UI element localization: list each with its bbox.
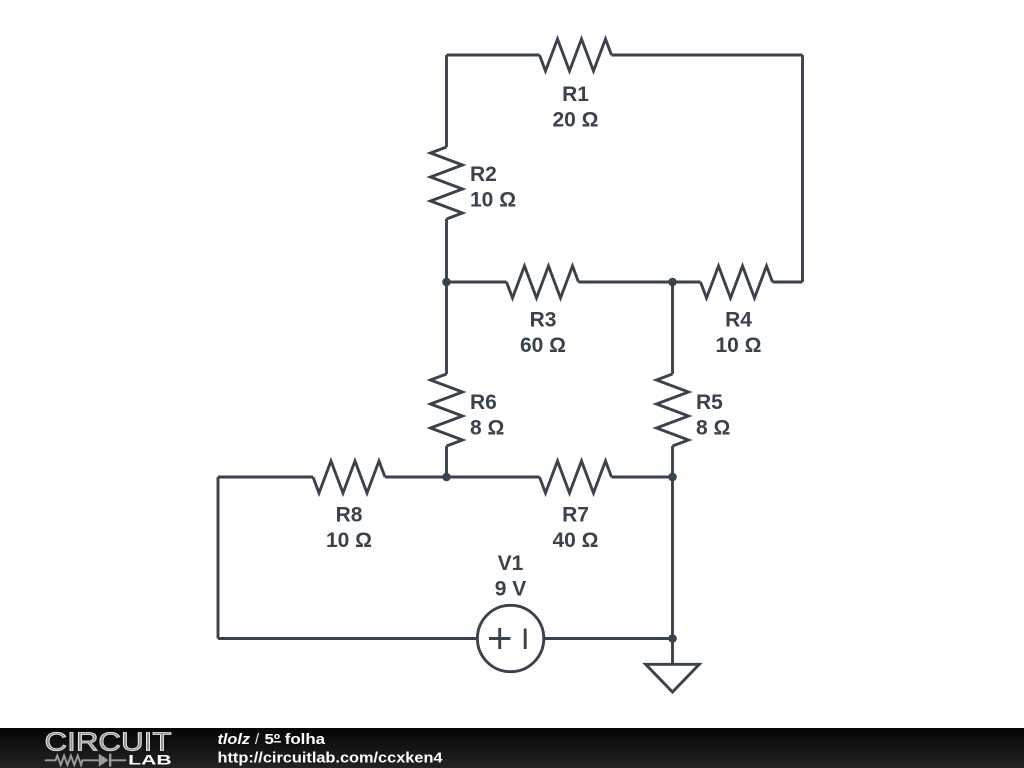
wire R5 to node D xyxy=(671,446,674,477)
svg-text:R3: R3 xyxy=(530,309,557,332)
svg-text:10 Ω: 10 Ω xyxy=(326,529,372,552)
svg-text:tlolz: tlolz xyxy=(218,732,251,748)
wire far-left to R8 xyxy=(218,476,313,479)
wire node C to R7 xyxy=(447,476,540,479)
wire node B down to R5 xyxy=(671,282,674,374)
resistor R8 xyxy=(313,461,385,493)
wire R4 to right vertical xyxy=(773,281,803,284)
wire right vertical xyxy=(801,55,804,282)
resistor R2 xyxy=(431,147,463,219)
svg-text:10 Ω: 10 Ω xyxy=(470,189,516,212)
svg-text:20 Ω: 20 Ω xyxy=(552,109,598,132)
node E junction dot xyxy=(668,634,677,643)
svg-text:8 Ω: 8 Ω xyxy=(470,417,504,440)
wire bottom to V1 xyxy=(218,637,477,640)
svg-text:8 Ω: 8 Ω xyxy=(696,417,730,440)
svg-text:40 Ω: 40 Ω xyxy=(552,529,598,552)
svg-text:LAB: LAB xyxy=(128,751,172,767)
svg-text:R2: R2 xyxy=(470,163,497,186)
wire top-left horizontal xyxy=(447,54,540,57)
wire node A down to R6 xyxy=(445,282,448,374)
wire R6 to node C xyxy=(445,446,448,477)
wire top-right horizontal xyxy=(612,54,803,57)
resistor R7 xyxy=(540,461,612,493)
wire far-left vertical xyxy=(217,477,220,639)
node D junction dot xyxy=(668,473,677,482)
node C junction dot xyxy=(442,473,451,482)
wire node A to R3 xyxy=(447,281,507,284)
resistor R6 xyxy=(431,374,463,446)
wire R8 to node C xyxy=(385,476,447,479)
svg-text:R4: R4 xyxy=(725,309,752,332)
wire R7 to node D xyxy=(612,476,673,479)
svg-text:R7: R7 xyxy=(562,504,589,527)
node B junction dot xyxy=(668,278,677,287)
wire left vertical R2 to node A xyxy=(445,219,448,282)
svg-text:9 V: 9 V xyxy=(495,578,527,601)
svg-text:R6: R6 xyxy=(470,391,497,414)
wire V1 to node E xyxy=(544,637,673,640)
resistor R4 xyxy=(701,266,773,298)
svg-text:5º folha: 5º folha xyxy=(265,732,327,748)
wire node D down to node E xyxy=(671,477,674,639)
wire left vertical upper xyxy=(445,55,448,147)
svg-text:R1: R1 xyxy=(562,83,589,106)
svg-text:10 Ω: 10 Ω xyxy=(715,334,761,357)
svg-text:http://circuitlab.com/ccxken4: http://circuitlab.com/ccxken4 xyxy=(218,750,444,767)
wire R3 to node B xyxy=(579,281,673,284)
svg-text:R5: R5 xyxy=(696,391,723,414)
resistor R3 xyxy=(507,266,579,298)
resistor R1 xyxy=(540,39,612,71)
ground xyxy=(646,639,700,693)
svg-text:60 Ω: 60 Ω xyxy=(520,334,566,357)
voltage source V1 xyxy=(477,605,543,671)
resistor R5 xyxy=(657,374,689,446)
svg-text:V1: V1 xyxy=(498,552,524,575)
ordinal indicator underline xyxy=(274,741,281,743)
footer bar xyxy=(0,728,1024,768)
node A junction dot xyxy=(442,278,451,287)
CircuitLab logo resistor and diode glyph xyxy=(45,754,126,767)
svg-text:R8: R8 xyxy=(336,504,363,527)
wire node B to R4 xyxy=(673,281,701,284)
